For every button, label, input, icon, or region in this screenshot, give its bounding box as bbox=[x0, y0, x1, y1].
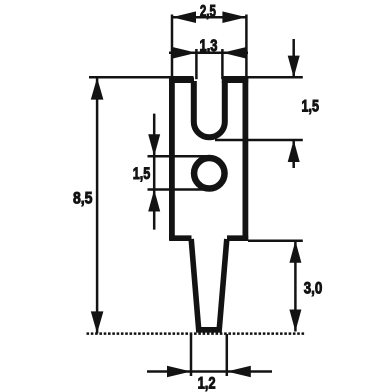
hole (circle) bbox=[194, 158, 225, 189]
svg-text:1,5: 1,5 bbox=[302, 98, 320, 116]
arrow 1,5 right top (outside, pointing down) bbox=[288, 56, 300, 78]
arrow 2,5 right bbox=[222, 11, 246, 23]
extension line: part top left of slot bbox=[89, 76, 194, 79]
extension line: slot bottom right bbox=[215, 139, 303, 142]
dimension line 3,0 bbox=[294, 241, 297, 332]
extension line: hole top bbox=[148, 155, 210, 158]
svg-text:8,5: 8,5 bbox=[73, 190, 93, 208]
arrow 3,0 top (pointing up) bbox=[289, 241, 301, 263]
part outline: step shoulder left bbox=[170, 235, 192, 241]
svg-text:1,3: 1,3 bbox=[200, 37, 218, 55]
arrow 1,3 right (outside, pointing left) bbox=[222, 47, 246, 59]
arrow 1,5 right bottom (outside, pointing up) bbox=[288, 140, 300, 162]
dimension line 1,5 right bbox=[292, 39, 295, 78]
svg-text:2,5: 2,5 bbox=[200, 3, 216, 21]
arrow 1,2 left (outside, pointing right) bbox=[167, 366, 191, 378]
dimension line 1,3 bbox=[169, 52, 248, 55]
arrow 3,0 bottom (pointing down) bbox=[289, 310, 301, 332]
extension line: 1,2 left bbox=[190, 334, 193, 376]
arrow 8,5 bottom (pointing down) bbox=[91, 311, 104, 333]
dimension line 2,5 bbox=[172, 16, 246, 19]
svg-text:1,5: 1,5 bbox=[133, 165, 151, 183]
dimension line 1,2 bbox=[147, 370, 272, 373]
arrow 1,5 hole bottom (outside, pointing up) bbox=[148, 190, 160, 212]
part outline: right outer wall bbox=[242, 77, 248, 241]
arrow 2,5 left bbox=[172, 11, 196, 23]
extension line: hole bottom bbox=[148, 188, 210, 191]
part outline: left outer wall bbox=[169, 77, 175, 241]
extension line: step right bbox=[248, 240, 303, 243]
extension line: part top right of slot bbox=[223, 76, 302, 79]
part tip: tapered solder tab bbox=[191, 239, 227, 330]
extension line: 1,3 right bbox=[221, 49, 224, 79]
arrow 8,5 top (pointing up) bbox=[91, 78, 104, 100]
part outline: top edge right segment bbox=[222, 77, 248, 83]
extension line: 2,5 left bbox=[171, 15, 174, 78]
dimension line 1,5 hole bbox=[153, 114, 156, 230]
extension line: 1,3 left bbox=[195, 49, 198, 79]
svg-text:1,2: 1,2 bbox=[198, 374, 216, 392]
extension line: 2,5 right bbox=[245, 15, 248, 78]
part outline: U-slot bbox=[194, 81, 225, 137]
arrow 1,2 right (outside, pointing left) bbox=[227, 366, 251, 378]
part outline: top edge left segment bbox=[170, 77, 194, 83]
arrow 1,5 hole top (outside, pointing down) bbox=[148, 134, 160, 156]
dotted baseline bbox=[87, 332, 306, 335]
part outline: step shoulder right bbox=[227, 235, 248, 241]
extension line: 1,2 right bbox=[226, 334, 229, 376]
svg-text:3,0: 3,0 bbox=[304, 280, 323, 298]
dimension line 8,5 bbox=[96, 78, 99, 334]
arrow 1,3 left (outside, pointing right) bbox=[172, 47, 196, 59]
